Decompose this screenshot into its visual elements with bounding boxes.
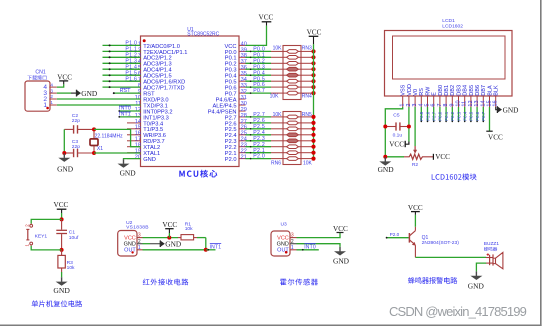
svg-text:VCC: VCC bbox=[333, 225, 348, 233]
potentiometer R2 bbox=[385, 146, 433, 159]
svg-text:P0.1: P0.1 bbox=[444, 111, 449, 121]
svg-text:12: 12 bbox=[468, 100, 474, 106]
svg-text:P0.3: P0.3 bbox=[456, 111, 461, 121]
svg-text:RN6: RN6 bbox=[271, 160, 281, 166]
svg-text:37: 37 bbox=[241, 59, 247, 65]
svg-text:10k: 10k bbox=[185, 226, 193, 232]
svg-text:BLA: BLA bbox=[487, 85, 493, 96]
wire P0.1 bbox=[246, 57, 284, 59]
wire C2 left to C3 left bbox=[63, 129, 65, 153]
capacitor C2 bbox=[64, 125, 94, 133]
resistor network RN5/RN6 body bbox=[283, 112, 301, 165]
wire U3 GND bbox=[290, 244, 340, 247]
svg-text:P0.7: P0.7 bbox=[481, 111, 486, 121]
svg-text:P0.0: P0.0 bbox=[438, 111, 443, 121]
U1 left pin stubs 1-20 bbox=[127, 45, 141, 158]
svg-text:P0.5: P0.5 bbox=[469, 111, 474, 121]
svg-text:23: 23 bbox=[241, 143, 247, 149]
ground at U3 bbox=[333, 247, 350, 266]
svg-text:GND: GND bbox=[277, 242, 289, 248]
svg-text:DB7: DB7 bbox=[481, 85, 487, 96]
svg-text:INT1: INT1 bbox=[210, 244, 222, 250]
wire CN1 pin4 to VCC bbox=[57, 84, 64, 87]
svg-text:1: 1 bbox=[50, 100, 53, 105]
wire P2.3 bbox=[246, 140, 284, 142]
LCD1602 screen bbox=[393, 36, 506, 79]
svg-text:8: 8 bbox=[443, 103, 449, 106]
svg-text:9: 9 bbox=[449, 103, 455, 106]
wire LCD VDD to VCC bbox=[405, 107, 409, 144]
wire INT0 bbox=[118, 110, 140, 112]
svg-text:VCC: VCC bbox=[124, 235, 136, 241]
wire P1.0 bbox=[103, 44, 141, 46]
U2 pin numbers 3 2 1 bbox=[138, 233, 141, 251]
svg-text:P0.7: P0.7 bbox=[253, 88, 265, 94]
svg-text:RS: RS bbox=[419, 88, 425, 96]
svg-text:DB0: DB0 bbox=[438, 85, 444, 96]
junction C5 left bbox=[383, 125, 387, 129]
svg-text:VCC: VCC bbox=[277, 235, 289, 241]
svg-text:32: 32 bbox=[241, 89, 247, 95]
junction C5 right bbox=[407, 125, 411, 129]
title hall sensor bbox=[280, 279, 318, 286]
svg-text:DB5: DB5 bbox=[469, 85, 475, 96]
svg-text:GND: GND bbox=[165, 240, 181, 249]
svg-text:GND: GND bbox=[143, 157, 156, 163]
RN5/RN6 right stubs and junctions bbox=[301, 115, 316, 161]
wire P0.6 bbox=[246, 86, 284, 88]
svg-text:GND: GND bbox=[378, 165, 395, 174]
power VCC at U3 bbox=[333, 225, 348, 233]
CN1 pin numbers bbox=[50, 82, 53, 105]
svg-text:3: 3 bbox=[412, 103, 418, 106]
BUZZ1 value buzzer bbox=[484, 247, 497, 251]
wire CN1 pin3 to GND bbox=[57, 92, 77, 94]
title IR receiver circuit bbox=[143, 279, 189, 286]
svg-text:35: 35 bbox=[241, 71, 247, 77]
wire P1.2 bbox=[103, 56, 141, 58]
svg-text:10K: 10K bbox=[270, 94, 280, 100]
wire P0.5 bbox=[246, 80, 284, 82]
svg-text:10: 10 bbox=[456, 100, 462, 106]
wire LCD BLK to GND bbox=[496, 107, 498, 110]
wire U1 pin20 GND bbox=[124, 158, 141, 161]
svg-text:OUT: OUT bbox=[124, 248, 136, 254]
U1 left pin numbers 1-20 bbox=[135, 41, 141, 160]
svg-text:P0.4: P0.4 bbox=[463, 111, 468, 121]
wire P2.7 bbox=[246, 116, 284, 118]
wire P0.4 bbox=[246, 74, 284, 76]
U2 pin names bbox=[124, 235, 137, 253]
LCD pin numbers 1-16 bbox=[400, 100, 499, 106]
svg-text:16: 16 bbox=[493, 100, 499, 106]
svg-text:P0.2: P0.2 bbox=[450, 111, 455, 121]
wire P1.5 bbox=[103, 74, 141, 76]
svg-text:39: 39 bbox=[241, 47, 247, 53]
CN1 pin stubs bbox=[49, 87, 57, 105]
wire LCD V0 to R2 wiper bbox=[414, 107, 416, 146]
svg-text:DB2: DB2 bbox=[450, 85, 456, 96]
svg-text:VS1838B: VS1838B bbox=[126, 225, 149, 231]
svg-text:VCC: VCC bbox=[259, 14, 274, 22]
svg-text:2: 2 bbox=[406, 103, 412, 106]
wire P1.4 bbox=[103, 68, 141, 70]
IC U2 VS1838B body bbox=[118, 231, 137, 257]
wire to INT1 label bbox=[206, 249, 216, 251]
power VCC above U2 wire bbox=[162, 221, 177, 238]
CN1 value download port bbox=[27, 75, 46, 80]
ground below LCD VSS rail bbox=[378, 157, 395, 174]
svg-text:VDD: VDD bbox=[407, 84, 413, 96]
svg-text:VCC: VCC bbox=[488, 134, 503, 142]
svg-text:1: 1 bbox=[43, 102, 47, 109]
svg-text:27: 27 bbox=[241, 119, 247, 125]
svg-text:P1.6: P1.6 bbox=[125, 76, 137, 82]
ground below buzzer bbox=[468, 271, 485, 290]
svg-text:22.1184MHz: 22.1184MHz bbox=[95, 134, 123, 140]
svg-text:VCC: VCC bbox=[435, 153, 450, 161]
svg-text:14: 14 bbox=[480, 100, 486, 106]
title MCU core bbox=[179, 170, 217, 178]
svg-text:INT1: INT1 bbox=[119, 112, 131, 118]
RN5/RN6 resistors x8 bbox=[283, 115, 301, 160]
svg-text:26: 26 bbox=[241, 125, 247, 131]
svg-text:V0: V0 bbox=[413, 89, 419, 96]
svg-text:RN3: RN3 bbox=[302, 45, 312, 51]
svg-text:4: 4 bbox=[418, 103, 424, 106]
svg-text:GND: GND bbox=[124, 242, 136, 248]
svg-text:22p: 22p bbox=[72, 118, 80, 124]
wire P2.5 bbox=[246, 128, 284, 130]
wire U1 VCC pin40 bbox=[246, 26, 267, 46]
junction U2 OUT / R1 bbox=[204, 248, 208, 252]
svg-text:11: 11 bbox=[462, 101, 468, 107]
svg-text:X1: X1 bbox=[97, 146, 103, 152]
U1 right pin stubs 21-40 bbox=[239, 45, 246, 158]
power VCC at LCD VDD bbox=[389, 140, 405, 148]
svg-text:10k: 10k bbox=[67, 265, 75, 271]
svg-text:4: 4 bbox=[50, 82, 53, 87]
power VCC right of R2 bbox=[433, 153, 450, 161]
svg-text:GND: GND bbox=[57, 165, 74, 174]
capacitor C3 bbox=[64, 149, 94, 157]
svg-text:21: 21 bbox=[241, 155, 247, 161]
wire crystal bottom to XTAL1 bbox=[94, 152, 141, 154]
capacitor C5 bbox=[385, 122, 409, 130]
wire P1.6 bbox=[103, 80, 141, 82]
svg-text:2: 2 bbox=[50, 94, 53, 99]
svg-text:GND: GND bbox=[81, 89, 97, 98]
wire Q1 collector to VCC bbox=[414, 215, 416, 227]
wire crystal top to XTAL2 bbox=[94, 129, 141, 146]
svg-text:24: 24 bbox=[241, 137, 247, 143]
wire CN1 pin1 to U1 TXD/P3.1 bbox=[57, 104, 141, 106]
svg-text:GND: GND bbox=[53, 286, 70, 295]
svg-text:38: 38 bbox=[241, 53, 247, 59]
svg-text:P2.5: P2.5 bbox=[419, 111, 424, 121]
net label INT0 bbox=[119, 106, 131, 112]
svg-text:P2.0: P2.0 bbox=[390, 232, 400, 237]
svg-text:30: 30 bbox=[241, 101, 247, 107]
wire pin 8 P1.7 bbox=[103, 86, 141, 88]
svg-text:CSDN @weixin_41785199: CSDN @weixin_41785199 bbox=[389, 304, 527, 319]
svg-text:2N3904(SOT-23): 2N3904(SOT-23) bbox=[422, 240, 460, 246]
power GND sideways at U2 bbox=[160, 240, 181, 249]
net label INT1 bbox=[119, 112, 131, 118]
svg-text:P2.0: P2.0 bbox=[253, 154, 265, 160]
title MCU reset circuit bbox=[32, 300, 83, 307]
IC U1 STC89C52RC body bbox=[141, 36, 240, 167]
power GND sideways at CN1 bbox=[77, 89, 98, 98]
power VCC above Q1 bbox=[408, 204, 423, 215]
svg-text:RN5: RN5 bbox=[302, 112, 312, 118]
wire P2.6 bbox=[246, 122, 284, 124]
svg-text:RW: RW bbox=[425, 86, 431, 96]
capacitor C1 bbox=[56, 219, 67, 250]
power VCC above RN3 bbox=[307, 28, 322, 44]
wire P0.0 bbox=[246, 51, 284, 53]
wire P1.1 bbox=[103, 50, 141, 52]
svg-text:15: 15 bbox=[487, 100, 493, 106]
wire P0.3 bbox=[246, 68, 284, 70]
svg-text:22: 22 bbox=[241, 149, 247, 155]
svg-text:10K: 10K bbox=[303, 160, 313, 166]
svg-text:GND: GND bbox=[120, 168, 137, 177]
svg-text:E: E bbox=[432, 92, 438, 96]
svg-text:29: 29 bbox=[241, 107, 247, 113]
wire P2.4 bbox=[246, 134, 284, 136]
svg-text:STC89C52RC: STC89C52RC bbox=[187, 32, 219, 38]
svg-text:P2.0: P2.0 bbox=[225, 157, 237, 163]
power VCC at CN1 bbox=[57, 73, 72, 84]
svg-text:P2.6: P2.6 bbox=[425, 111, 430, 121]
svg-text:GND: GND bbox=[468, 282, 485, 291]
crystal X1 bbox=[90, 129, 98, 153]
wire R1 to INT1 node bbox=[194, 238, 206, 250]
wire INT1 bbox=[118, 116, 140, 118]
svg-text:U3: U3 bbox=[281, 221, 288, 227]
svg-text:RN4: RN4 bbox=[302, 94, 312, 100]
wire P1.3 bbox=[103, 62, 141, 64]
svg-text:GND: GND bbox=[503, 105, 519, 114]
svg-text:36: 36 bbox=[241, 65, 247, 71]
svg-text:RST: RST bbox=[120, 88, 132, 94]
net label INT1 at U2 bbox=[210, 244, 222, 251]
svg-text:INT0: INT0 bbox=[304, 244, 316, 250]
U3 pin names bbox=[277, 235, 290, 253]
svg-text:C5: C5 bbox=[393, 113, 400, 119]
wire C1 top to KEY1 bbox=[31, 219, 61, 223]
connector CN1 body bbox=[25, 81, 50, 111]
svg-text:5: 5 bbox=[425, 103, 431, 106]
svg-text:LCD1602: LCD1602 bbox=[442, 23, 463, 29]
pushbutton KEY1 bbox=[26, 224, 32, 246]
RN3/RN4 resistors x8 bbox=[283, 50, 301, 95]
title LCD1602 module bbox=[432, 173, 477, 180]
resistor R1 bbox=[181, 235, 194, 240]
svg-text:40: 40 bbox=[241, 41, 247, 47]
wire P0.7 bbox=[246, 92, 284, 94]
svg-text:VSS: VSS bbox=[401, 84, 407, 95]
wire U3 VCC bbox=[290, 233, 340, 238]
wire P2.1 bbox=[246, 152, 284, 154]
svg-text:10uf: 10uf bbox=[69, 235, 79, 241]
wire U2 VCC to R1 bbox=[137, 237, 181, 239]
junction C1 bottom bbox=[60, 248, 64, 252]
svg-text:33: 33 bbox=[241, 83, 247, 89]
LCD pin stubs bbox=[403, 96, 496, 107]
wire Q1 emitter to buzzer bbox=[415, 256, 486, 258]
svg-text:13: 13 bbox=[474, 100, 480, 106]
LCD data wires with net labels bbox=[419, 107, 486, 122]
svg-text:DB1: DB1 bbox=[444, 85, 450, 96]
LCD1602 module body bbox=[385, 31, 513, 97]
RN3/RN4 right stubs and junctions bbox=[301, 49, 316, 95]
junction crystal top node bbox=[92, 127, 96, 131]
wire C1 bottom to KEY1 bbox=[31, 246, 61, 250]
LCD pin names bbox=[401, 84, 500, 96]
svg-text:VCC: VCC bbox=[57, 73, 72, 81]
svg-text:25: 25 bbox=[241, 131, 247, 137]
svg-text:VCC: VCC bbox=[54, 201, 69, 209]
svg-text:BUZZ1: BUZZ1 bbox=[484, 241, 500, 247]
power VCC above U1 bbox=[259, 14, 274, 26]
wire Q1 base bbox=[386, 237, 409, 239]
svg-text:28: 28 bbox=[241, 113, 247, 119]
svg-text:OUT: OUT bbox=[277, 248, 289, 254]
svg-text:VCC: VCC bbox=[307, 28, 322, 36]
svg-text:R2: R2 bbox=[412, 162, 419, 168]
junction U2 VCC bbox=[167, 236, 171, 240]
svg-text:KEY1: KEY1 bbox=[35, 234, 48, 240]
power VCC above reset bbox=[54, 201, 69, 213]
svg-text:7: 7 bbox=[437, 103, 443, 106]
svg-text:P2.7: P2.7 bbox=[432, 111, 437, 121]
svg-text:VCC: VCC bbox=[408, 204, 423, 212]
svg-text:1: 1 bbox=[400, 103, 406, 106]
wire U2 OUT bbox=[137, 249, 206, 251]
wire U2 GND bbox=[137, 243, 160, 245]
wire P2.0 bbox=[246, 158, 284, 160]
wire P0.2 bbox=[246, 63, 284, 65]
svg-text:DB6: DB6 bbox=[475, 85, 481, 96]
power GND sideways at LCD BLK bbox=[497, 105, 518, 114]
svg-text:20: 20 bbox=[135, 155, 141, 161]
wire LCD BLA to VCC bbox=[489, 107, 491, 131]
svg-text:P0.6: P0.6 bbox=[475, 111, 480, 121]
U1 right pin numbers 21-40 bbox=[241, 41, 247, 160]
svg-text:GND: GND bbox=[333, 257, 350, 266]
U1 left pin names bbox=[143, 44, 187, 163]
U3 pin numbers 3 2 1 bbox=[291, 233, 294, 251]
wire buzzer to GND bbox=[476, 263, 486, 271]
svg-text:VCC: VCC bbox=[162, 221, 177, 229]
svg-text:LCD1: LCD1 bbox=[442, 18, 455, 24]
junction C1 top bbox=[60, 217, 64, 221]
wire VCC rail for resistor networks bbox=[313, 44, 315, 159]
junction R2 left bbox=[383, 155, 387, 159]
svg-text:6: 6 bbox=[431, 103, 437, 106]
svg-text:3: 3 bbox=[50, 88, 53, 93]
CN1 pin names 4 3 2 1 bbox=[43, 84, 47, 109]
resistor R3 bbox=[58, 250, 65, 277]
net label INT0 at U3 bbox=[304, 244, 316, 251]
transistor Q1 2N3904 bbox=[409, 227, 416, 258]
wire VCC to C1 top bbox=[61, 213, 63, 219]
power VCC at LCD BLA bbox=[486, 131, 503, 141]
IC U3 hall sensor body bbox=[271, 231, 290, 256]
svg-text:BLK: BLK bbox=[494, 85, 500, 96]
wire U3 OUT bbox=[290, 249, 319, 251]
net label RST bbox=[120, 88, 132, 94]
svg-text:31: 31 bbox=[241, 95, 247, 101]
svg-text:10K: 10K bbox=[273, 45, 283, 51]
wire RST bbox=[113, 92, 141, 94]
junction C3 left node bbox=[62, 151, 66, 155]
svg-text:VCC: VCC bbox=[389, 140, 404, 148]
U1 right pin names bbox=[208, 44, 237, 163]
svg-text:22p: 22p bbox=[72, 144, 80, 150]
junction crystal bottom node bbox=[92, 151, 96, 155]
ground below R3 bbox=[53, 277, 70, 295]
wire LCD VSS to GND bbox=[385, 107, 402, 157]
wire P2.2 bbox=[246, 146, 284, 148]
svg-text:DB3: DB3 bbox=[456, 85, 462, 96]
wire CN1 pin2 to U1 RXD/P3.0 bbox=[57, 98, 141, 100]
resistor network RN3/RN4 body bbox=[283, 46, 301, 100]
ground at U1 pin20 bbox=[118, 159, 137, 177]
svg-text:34: 34 bbox=[241, 77, 247, 83]
svg-text:CN1: CN1 bbox=[35, 69, 45, 75]
ground below C3 bbox=[57, 153, 74, 173]
svg-text:0.1u: 0.1u bbox=[393, 133, 403, 139]
buzzer BUZZ1 bbox=[486, 252, 503, 268]
title buzzer alarm circuit bbox=[408, 277, 457, 284]
svg-text:DB4: DB4 bbox=[463, 85, 469, 96]
svg-text:10K: 10K bbox=[273, 112, 283, 118]
svg-text:C1: C1 bbox=[69, 229, 76, 235]
